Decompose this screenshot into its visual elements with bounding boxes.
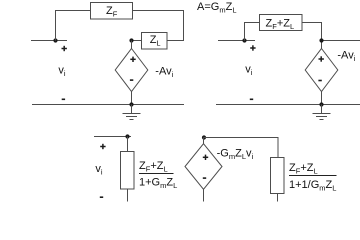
minus label input circuit2 xyxy=(250,98,253,100)
wire impedance down circuit3 xyxy=(127,189,129,202)
wire node down to impedance circuit3 xyxy=(127,137,129,152)
wire bottom rail circuit1 xyxy=(32,104,184,106)
node ground junction dot circuit2 xyxy=(319,102,323,106)
resistor ZL box circuit1 xyxy=(142,33,168,50)
svg-text:A=GmZL: A=GmZL xyxy=(197,1,236,15)
wire ZF output right circuit1 xyxy=(133,11,184,41)
svg-text:-GmZLvi: -GmZLvi xyxy=(217,147,254,161)
plus label input circuit2 xyxy=(250,45,255,50)
resistor ZF+ZL box circuit2 xyxy=(260,15,303,31)
impedance box (ZF+ZL)/(1+GmZL) circuit3 xyxy=(121,152,135,190)
value label fraction (ZF+ZL)/(1+GmZL) circuit3 xyxy=(139,160,177,190)
minus polarity inside source circuit1 xyxy=(130,79,133,81)
wire node to impedance circuit4 xyxy=(204,138,279,158)
node junction dot top of source circuit4 xyxy=(202,135,206,139)
wire source top stub circuit4 xyxy=(203,138,205,144)
wire source to ground rail circuit1 xyxy=(131,92,133,105)
resistor ZF box circuit1 xyxy=(91,3,133,20)
wire input top circuit3 xyxy=(94,136,131,138)
wire source bottom down circuit4 xyxy=(203,189,205,201)
wire source to ground rail circuit2 xyxy=(321,92,323,105)
dependent source diamond -Avi circuit1 xyxy=(115,49,148,92)
wire output node to right edge circuit2 xyxy=(322,40,360,42)
svg-text:1+1/GmZL: 1+1/GmZL xyxy=(289,179,336,193)
svg-text:ZF+ZL: ZF+ZL xyxy=(289,162,318,176)
svg-text:ZF+ZL: ZF+ZL xyxy=(266,18,295,32)
node input junction dot circuit2 xyxy=(242,38,246,42)
dependent source diamond -GmZLvi circuit4 xyxy=(185,144,222,190)
wire impedance down circuit4 xyxy=(277,194,279,202)
value label fraction (ZF+ZL)/(1+1/GmZL) circuit4 xyxy=(289,162,337,193)
plus polarity inside source circuit2 xyxy=(319,56,324,61)
node input junction dot circuit1 xyxy=(53,38,57,42)
wire box to output node circuit2 xyxy=(302,23,322,49)
node junction dot circuit3 xyxy=(125,134,129,138)
dependent source diamond -Avi circuit2 xyxy=(305,49,338,92)
plus label input circuit1 xyxy=(62,46,67,51)
svg-text:vi: vi xyxy=(95,163,103,177)
ground symbol circuit2 xyxy=(313,105,331,120)
node ground junction dot circuit1 xyxy=(129,102,133,106)
wire node down to source circuit1 xyxy=(131,41,133,49)
svg-text:1+GmZL: 1+GmZL xyxy=(139,177,177,191)
svg-text:ZF+ZL: ZF+ZL xyxy=(139,160,168,174)
node output junction dot circuit2 xyxy=(319,38,323,42)
svg-text:-Avi: -Avi xyxy=(337,50,355,64)
ground symbol circuit1 xyxy=(123,105,141,120)
plus polarity inside source circuit1 xyxy=(130,57,135,62)
wire ZL to node circuit1 xyxy=(132,40,142,42)
wire input top rail circuit1 xyxy=(31,40,67,42)
minus polarity inside source circuit2 xyxy=(318,80,321,82)
wire bottom rail circuit2 xyxy=(216,104,360,106)
minus polarity inside source circuit4 xyxy=(203,177,206,179)
svg-text:vi: vi xyxy=(58,65,66,79)
plus polarity inside source circuit4 xyxy=(203,155,208,160)
wire input up to ZF+ZL circuit2 xyxy=(245,23,260,41)
impedance box (ZF+ZL)/(1+1/GmZL) circuit4 xyxy=(271,158,285,194)
wire input up to ZF circuit1 xyxy=(56,11,91,41)
svg-text:-Avi: -Avi xyxy=(155,66,173,80)
node dot top of source circuit1 xyxy=(129,38,133,42)
minus label input circuit1 xyxy=(62,98,65,100)
wire input top rail circuit2 xyxy=(218,40,255,42)
minus label input circuit3 xyxy=(100,196,103,198)
plus label input circuit3 xyxy=(100,144,105,149)
svg-text:vi: vi xyxy=(245,64,253,78)
